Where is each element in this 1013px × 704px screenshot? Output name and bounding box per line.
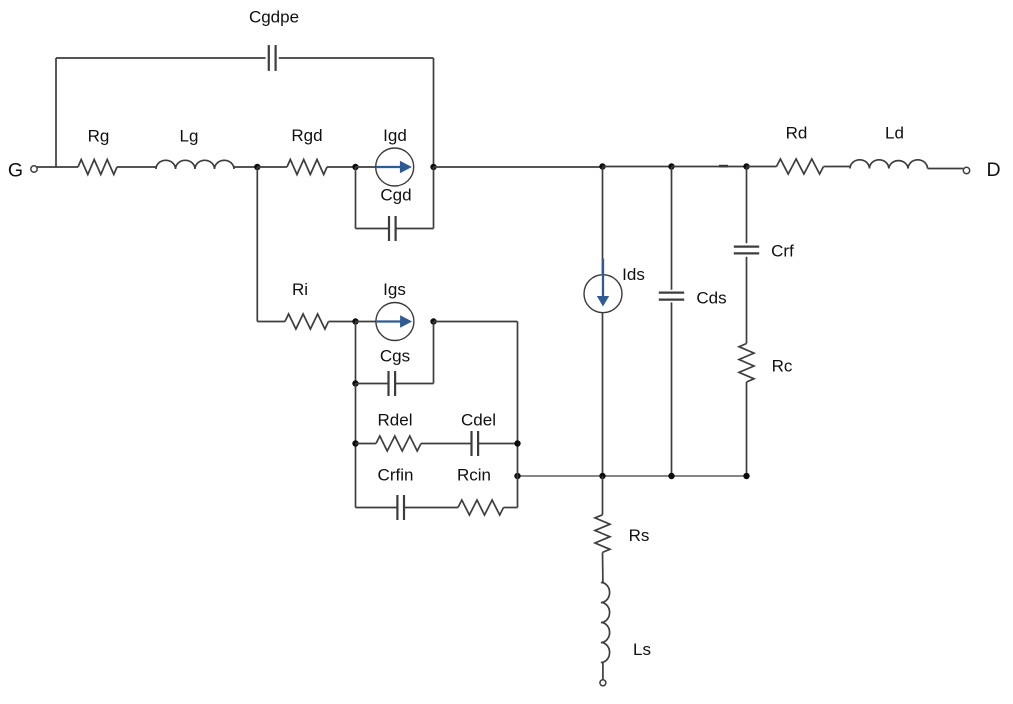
svg-text:Rg: Rg (88, 127, 110, 146)
wire bus to Rs (602, 476, 604, 515)
svg-text:Ids: Ids (622, 265, 645, 284)
capacitor Crf (734, 246, 759, 248)
wire node to Rgd (257, 166, 287, 168)
wire Cds branch lower (671, 302, 673, 476)
capacitor Crfin (396, 495, 398, 520)
resistor Rd (777, 159, 824, 174)
svg-text:Cgs: Cgs (380, 347, 410, 366)
wire G to Rg (37, 166, 78, 168)
wire Cgd loop left riser (355, 167, 357, 229)
resistor Rc (739, 344, 754, 383)
resistor Ri (285, 314, 329, 329)
wire left riser to Cgdpe loop (55, 58, 57, 167)
inductor Ls (601, 583, 610, 663)
wire main line Igd to Ids node (434, 166, 603, 168)
svg-text:Cdel: Cdel (461, 411, 496, 430)
wire Rg to Lg (117, 166, 156, 168)
current source Igs (376, 303, 414, 341)
svg-text:Ri: Ri (292, 280, 308, 299)
capacitor Cdel (470, 431, 472, 456)
wire overlap artifact (719, 165, 728, 168)
resistor Rgd (287, 160, 327, 175)
node bus-Ids (599, 473, 605, 479)
svg-text:Rc: Rc (772, 357, 793, 376)
wire Cgs loop right riser (433, 322, 435, 384)
wire Crf branch upper (746, 167, 748, 243)
svg-text:Rdel: Rdel (378, 411, 413, 430)
node Rgd-Igd junction (352, 164, 358, 170)
inductor Lg (156, 160, 234, 169)
wire Crf to Rc (746, 257, 748, 344)
svg-text:Igd: Igd (383, 126, 407, 145)
wire node to Igd (356, 166, 377, 168)
wire Cgd loop bottom right (396, 228, 434, 230)
resistor Rdel (376, 436, 421, 451)
capacitor Cds (659, 292, 684, 294)
wire Ids branch upper (602, 167, 604, 275)
capacitor Cgdpe (268, 45, 270, 71)
wire Ld to terminal D (928, 168, 964, 170)
wire Cgdpe top left (56, 57, 266, 59)
wire Rdel to Cdel (421, 443, 471, 445)
capacitor Cgd (388, 216, 390, 241)
wire node to Rdel (356, 443, 377, 445)
wire Ids branch lower (602, 313, 604, 476)
capacitor Cgs (387, 371, 389, 396)
svg-text:Cds: Cds (696, 289, 726, 308)
wire Igs node to right riser (434, 321, 518, 323)
wire Cgs loop left (356, 383, 389, 385)
node bus-Cds (668, 473, 674, 479)
wire corner to Ri (257, 321, 285, 323)
wire gate node down (256, 167, 258, 322)
wire Ri to node (329, 321, 356, 323)
wire bottom bus (518, 475, 747, 477)
wire Rgd to node (327, 166, 356, 168)
svg-text:Ls: Ls (633, 640, 651, 659)
svg-text:Rgd: Rgd (291, 126, 322, 145)
wire Cgs loop right (395, 383, 433, 385)
node Cgs tap (352, 380, 358, 386)
wire Cgd loop bottom left (356, 228, 389, 230)
svg-text:Lg: Lg (180, 127, 199, 146)
wire Rc to bus (746, 382, 748, 476)
resistor Rg (78, 160, 117, 175)
wire right riser of Cgdpe loop (433, 58, 435, 167)
wire left riser Ri network (355, 384, 357, 508)
svg-text:D: D (986, 159, 1000, 181)
svg-text:Ld: Ld (885, 124, 904, 143)
wire Cgs loop left riser (355, 322, 357, 384)
resistor Rs (595, 515, 610, 553)
terminal D (963, 167, 969, 173)
wire main line Cds to Crf node (672, 166, 747, 168)
wire Lg to node (234, 166, 257, 168)
wire Rd to Ld (824, 166, 851, 168)
svg-text:G: G (8, 160, 23, 182)
node drain-Ids (599, 163, 605, 169)
current source Ids (584, 275, 622, 313)
wire main line Ids to Cds node (603, 166, 672, 168)
wire Crfin to Rcin (404, 507, 458, 509)
wire node to Igs (356, 321, 377, 323)
wire Cdel to node (478, 443, 517, 445)
wire corner to Crfin (356, 507, 398, 509)
svg-text:Cgd: Cgd (380, 186, 411, 205)
wire Rs to Ls (602, 552, 604, 582)
wire Rcin to right riser (504, 507, 518, 509)
wire node to Rd (747, 166, 777, 168)
inductor Ld (850, 160, 928, 169)
wire Cds branch upper (671, 167, 673, 290)
node Igs output (430, 318, 436, 324)
node Rdel tap (352, 440, 358, 446)
wire Cgd loop right riser (433, 167, 435, 229)
node drain-Cds (668, 163, 674, 169)
svg-text:Rcin: Rcin (457, 466, 491, 485)
terminal S (600, 680, 606, 686)
node Igd output (430, 164, 436, 170)
node bus-Rc (743, 473, 749, 479)
svg-text:Crf: Crf (771, 242, 794, 261)
resistor Rcin (458, 500, 504, 515)
wire right riser Igs loop (517, 322, 519, 508)
wire Cgdpe top right (279, 57, 434, 59)
svg-text:Rs: Rs (629, 526, 650, 545)
node bus-Cdel riser (514, 473, 520, 479)
node drain-Crf (743, 163, 749, 169)
svg-text:Rd: Rd (786, 124, 808, 143)
node Cdel output (514, 440, 520, 446)
svg-text:Crfin: Crfin (378, 466, 414, 485)
node gate junction (254, 164, 260, 170)
svg-text:Cgdpe: Cgdpe (249, 8, 299, 27)
svg-text:Igs: Igs (383, 280, 406, 299)
current source Igd (376, 148, 414, 186)
terminal G (31, 166, 37, 172)
wire Ls to terminal S (602, 663, 604, 680)
node Igs input (352, 318, 358, 324)
